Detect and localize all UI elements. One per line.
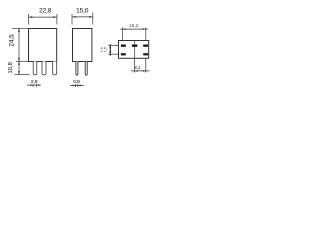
pad row2 col3	[143, 53, 148, 55]
dimension 7,6 line	[109, 44, 111, 56]
dimension 0,8 extension ticks	[75, 84, 77, 87]
dimension 2,8 extension ticks	[32, 84, 34, 87]
svg-text:24,5: 24,5	[9, 34, 16, 47]
pad row2 col1	[121, 53, 126, 55]
dimension 7,6 row extension lines	[108, 44, 118, 46]
dimension 15,0 line	[72, 16, 93, 18]
svg-text:15,0: 15,0	[76, 8, 89, 15]
dimension 24,5 line	[18, 28, 20, 61]
dimension 22,8 line	[29, 16, 57, 18]
svg-text:0,8: 0,8	[73, 79, 80, 85]
pad row1 col3	[143, 45, 148, 47]
svg-text:7,6: 7,6	[103, 46, 108, 52]
relay side view body	[73, 29, 92, 62]
dimension 16,2 right extension line	[145, 27, 147, 40]
dimension 24,5 arrowheads	[18, 28, 20, 61]
dimension 10,8 bottom extension line (pin tips)	[15, 74, 30, 76]
svg-text:10,8: 10,8	[8, 62, 14, 73]
dimension 24,5 top extension line	[12, 27, 29, 29]
dimension 22,8 left extension tick	[28, 14, 30, 25]
relay front view body	[29, 29, 57, 62]
dimension 15,0 left extension tick	[71, 14, 73, 25]
pin 3 (front view)	[53, 61, 57, 75]
dimension 0,8 arrowheads (outside)	[73, 85, 81, 87]
dimension 16,2 line	[120, 28, 148, 30]
pin 1 (front view, wide coil pin)	[33, 61, 37, 75]
dimension 10,8 line	[18, 61, 20, 74]
dimension 22,8 right extension tick	[56, 14, 58, 25]
dimension 16,2 arrowheads	[122, 28, 145, 30]
pin B (side view)	[85, 62, 87, 76]
dimension 22,8 arrowheads	[29, 16, 57, 18]
dimension 8,1 line	[131, 70, 149, 72]
dimension 2,8 arrowheads (outside)	[30, 84, 39, 86]
pcb pads	[121, 45, 148, 56]
dimension 8,1 extension lines	[134, 58, 136, 72]
dimension 15,0 right extension tick	[92, 13, 94, 25]
pcb layout centre line	[134, 40, 136, 58]
dimension 2,8 line	[27, 84, 41, 86]
pin 2 (front view)	[42, 61, 46, 75]
dimension 24,5 / 10,8 shared extension line	[16, 60, 28, 62]
svg-text:8,1: 8,1	[134, 65, 141, 70]
dimension 15,0 arrowheads	[72, 16, 93, 18]
pcb layout outline	[119, 41, 149, 59]
pad row1 col2	[132, 45, 138, 47]
dimension 10,8 arrowheads	[18, 61, 20, 74]
pin A (side view)	[76, 62, 78, 76]
dimension 7,6 arrowheads	[109, 45, 111, 54]
pad row1 col1	[121, 45, 126, 47]
dimension 8,1 arrowheads	[135, 70, 146, 72]
dimension 0,8 line	[70, 84, 84, 86]
svg-text:16,2: 16,2	[129, 23, 139, 29]
svg-text:2,8: 2,8	[31, 79, 38, 85]
dimension 16,2 left extension line	[121, 27, 123, 40]
svg-text:22,8: 22,8	[39, 8, 52, 15]
